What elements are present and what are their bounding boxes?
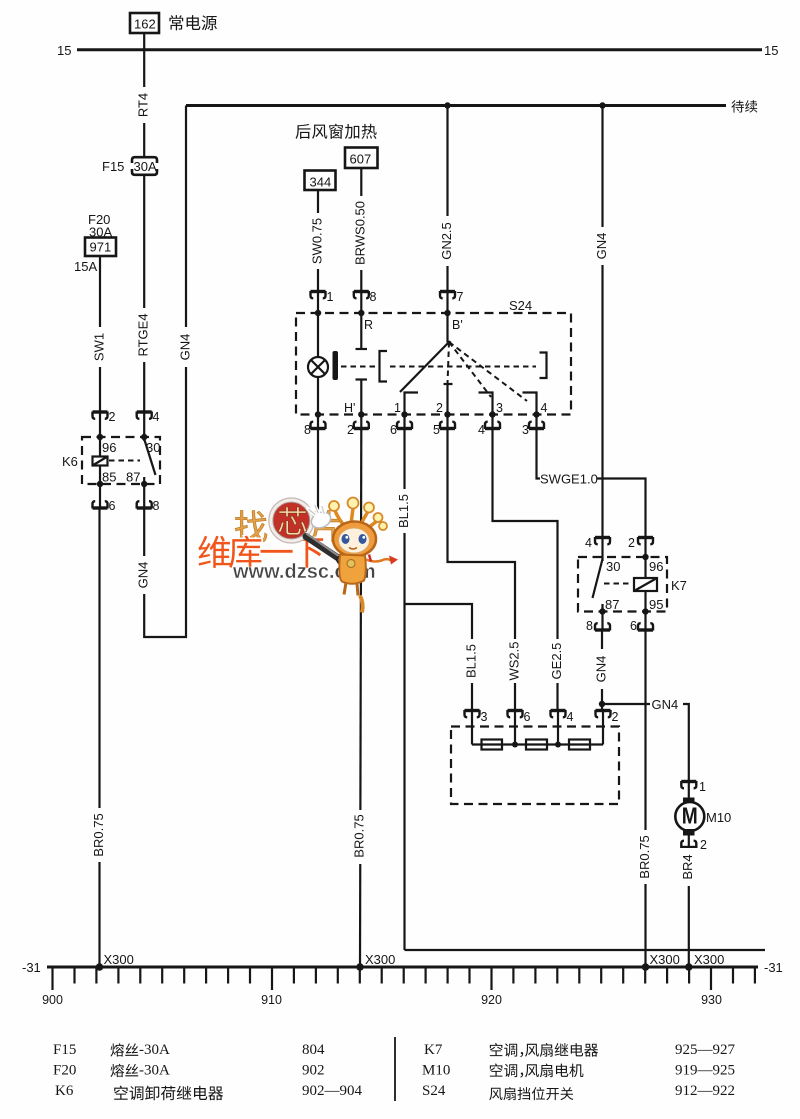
svg-text:8: 8: [304, 423, 311, 437]
svg-text:WS2.5: WS2.5: [506, 641, 521, 680]
K6 coil: [93, 457, 108, 466]
svg-text:-30A: -30A: [139, 1063, 170, 1079]
legend row M10: [422, 1063, 735, 1079]
wm find-chip text: [235, 510, 267, 541]
S24 bottom pin 4: [478, 415, 500, 438]
svg-text:-30A: -30A: [139, 1042, 170, 1058]
svg-text:H': H': [344, 401, 355, 415]
fuse F15 30A: [102, 157, 157, 175]
svg-text:X300: X300: [650, 952, 680, 967]
svg-text:SW1: SW1: [91, 333, 106, 361]
wire GE2.5 (S24 pin4 to resistor pin4): [493, 429, 566, 711]
wire GN4 (K6 pin8 up to bus2): [136, 106, 194, 638]
K6 contact blade: [144, 439, 155, 475]
K6 pin 4: [137, 410, 160, 424]
bus 2 (to be continued): [186, 100, 757, 112]
wire WS2.5 (S24 pin5 to resistor pin6): [448, 429, 524, 711]
svg-text:6: 6: [524, 710, 531, 724]
K7 contact blade: [593, 559, 603, 598]
wire SW0.75 (344 to S24 pin 1): [309, 191, 326, 292]
svg-text:RT4: RT4: [136, 93, 151, 117]
S24 pin 1: [311, 290, 334, 304]
wm magnifier: [269, 498, 314, 543]
S24 bottom pin 5: [433, 415, 455, 438]
svg-text:BR0.75: BR0.75: [91, 813, 106, 856]
S24 contact R/H': [356, 348, 368, 350]
svg-text:910: 910: [261, 993, 282, 1007]
S24 bottom pin 2: [347, 415, 369, 438]
svg-text:4: 4: [478, 423, 485, 437]
wm weiku text: [198, 536, 323, 568]
S24 illumination lamp: [308, 357, 328, 377]
svg-text:902: 902: [302, 1063, 325, 1079]
svg-text:900: 900: [42, 993, 63, 1007]
wire GN4 right (bus2 to K7 pin 4): [594, 106, 611, 538]
M10 pin 1: [681, 780, 706, 794]
svg-text:K6: K6: [55, 1083, 74, 1099]
svg-text:919—925: 919—925: [675, 1063, 735, 1079]
svg-text:S24: S24: [509, 298, 532, 313]
legend row F20: [53, 1063, 325, 1079]
svg-text:1: 1: [394, 401, 401, 415]
svg-text:930: 930: [701, 993, 722, 1007]
S24 position terminal 1: [405, 393, 419, 415]
S24 mech link dashed: [341, 366, 377, 368]
svg-text:2: 2: [700, 838, 707, 852]
svg-text:F20: F20: [53, 1063, 76, 1079]
svg-text:X300: X300: [104, 952, 134, 967]
svg-text:2: 2: [628, 536, 635, 550]
svg-text:8: 8: [586, 619, 593, 633]
svg-text:3: 3: [481, 710, 488, 724]
svg-text:K7: K7: [424, 1042, 443, 1058]
svg-text:GN4: GN4: [593, 656, 608, 683]
S24 pin 7: [440, 290, 464, 304]
legend divider: [394, 1037, 396, 1101]
wire BR0.75 (S24 pin2 to ground bus): [351, 429, 368, 968]
fuse box 971 (F20 30A): [74, 212, 116, 274]
S24 position terminal 4: [523, 393, 537, 415]
svg-text:K6: K6: [62, 454, 78, 469]
resistor R2: [526, 740, 547, 750]
svg-text:8: 8: [153, 499, 160, 513]
svg-text:920: 920: [481, 993, 502, 1007]
svg-text:GN4: GN4: [594, 233, 609, 260]
track numbers: [42, 993, 722, 1007]
svg-text:1: 1: [327, 290, 334, 304]
svg-text:804: 804: [302, 1042, 325, 1058]
legend row K7: [424, 1042, 736, 1058]
svg-text:S24: S24: [422, 1083, 446, 1099]
resistor pack pin 3: [465, 710, 488, 724]
K7 mech link: [604, 583, 632, 585]
K7 pin 2: [628, 536, 653, 550]
wire SWGE1.0 (S24 pin3 to K7 pin2): [537, 429, 646, 538]
svg-text:15: 15: [57, 43, 71, 58]
resistor pack pin 6: [508, 710, 531, 724]
S24 rotary contact B': [400, 342, 449, 392]
svg-text:4: 4: [541, 401, 548, 415]
svg-text:M: M: [682, 803, 698, 829]
svg-text:X300: X300: [365, 952, 395, 967]
connector box 344: [305, 171, 336, 191]
svg-text:BRWS0.50: BRWS0.50: [353, 201, 368, 265]
svg-text:F15: F15: [102, 159, 124, 174]
relay K6: [62, 412, 160, 487]
svg-text:F15: F15: [53, 1042, 76, 1058]
svg-text:-31: -31: [22, 960, 41, 975]
S24 pin 8: [354, 290, 377, 304]
svg-text:95: 95: [649, 597, 663, 612]
svg-text:971: 971: [90, 240, 112, 255]
resistor R1: [482, 740, 503, 750]
wm mascot: [306, 498, 398, 613]
svg-text:BR0.75: BR0.75: [637, 835, 652, 878]
K7 pin 8: [586, 612, 610, 634]
S24 bottom pin 6: [390, 415, 412, 438]
svg-text:K7: K7: [671, 578, 687, 593]
wire BR0.75 (K6 pin6 to ground bus): [91, 508, 107, 967]
S24 position terminal 2: [444, 384, 453, 415]
svg-text:2: 2: [612, 710, 619, 724]
svg-text:3: 3: [522, 423, 529, 437]
wire GN4 (K7 pin8 to resistor pin2 and branch to M10): [593, 630, 688, 782]
node X300 (K6 ground): [96, 952, 134, 971]
svg-text:R: R: [364, 318, 373, 332]
svg-text:BR4: BR4: [680, 854, 695, 879]
svg-text:B': B': [452, 318, 463, 332]
M10 pin 2: [681, 838, 707, 852]
legend row S24: [422, 1083, 735, 1100]
relay K7: [578, 538, 687, 615]
svg-text:7: 7: [457, 290, 464, 304]
wire BR0.75 (K7 pin6 to ground bus): [637, 630, 654, 967]
svg-text:607: 607: [350, 152, 372, 167]
svg-text:87: 87: [126, 470, 140, 485]
S24 bottom pin 3: [522, 415, 544, 438]
bus 15: [57, 43, 778, 58]
svg-text:SWGE1.0: SWGE1.0: [540, 472, 598, 487]
svg-text:RTGE4: RTGE4: [136, 313, 151, 356]
svg-text:6: 6: [630, 619, 637, 633]
resistor pack (blower resistors): [451, 711, 619, 805]
svg-text:2: 2: [109, 410, 116, 424]
wire RT4 (162 to F15): [136, 33, 152, 157]
svg-text:30A: 30A: [134, 159, 157, 174]
svg-text:30: 30: [606, 559, 620, 574]
wire lamp ground (S24 pin8, ends behind watermark): [317, 429, 319, 514]
svg-text:4: 4: [585, 536, 592, 550]
svg-text:6: 6: [390, 423, 397, 437]
svg-text:BR0.75: BR0.75: [351, 814, 366, 857]
svg-text:GN4: GN4: [136, 562, 151, 589]
svg-text:162: 162: [134, 17, 156, 32]
svg-text:M10: M10: [706, 810, 731, 825]
resistor R3: [569, 740, 590, 750]
S24 bottom pin 8: [304, 415, 326, 438]
K6 mech link: [109, 460, 140, 462]
node X300 (K7 ground): [642, 952, 680, 971]
title rear window heating: [296, 124, 377, 139]
connector box 607: [345, 148, 378, 169]
svg-text:6: 6: [109, 499, 116, 513]
svg-text:-31: -31: [764, 960, 783, 975]
wire SW1 (971 to K6 pin 2): [91, 256, 108, 412]
svg-text:X300: X300: [694, 952, 724, 967]
svg-text:8: 8: [370, 290, 377, 304]
node X300 (M10 ground): [685, 952, 724, 971]
K7 pin 4: [585, 536, 610, 550]
svg-text:96: 96: [102, 440, 116, 455]
connector box 162 constant power: [130, 13, 217, 33]
S24 position terminal 3: [479, 393, 493, 415]
wire RTGE4 (F15 to K6 pin 4): [136, 175, 152, 412]
svg-text:15A: 15A: [74, 259, 97, 274]
switch S24 fan switch: [296, 292, 571, 418]
svg-text:M10: M10: [422, 1063, 450, 1079]
svg-text:912—922: 912—922: [675, 1083, 735, 1099]
svg-text:SW0.75: SW0.75: [309, 218, 324, 264]
resistor pack pin 4: [551, 710, 574, 724]
svg-text:GE2.5: GE2.5: [549, 643, 564, 680]
watermark: [198, 498, 398, 613]
svg-text:5: 5: [433, 423, 440, 437]
svg-text:344: 344: [310, 175, 332, 190]
svg-text:15: 15: [764, 43, 778, 58]
svg-text:87: 87: [605, 597, 619, 612]
svg-text:4: 4: [567, 710, 574, 724]
legend row F15: [53, 1042, 325, 1058]
legend row K6: [55, 1083, 363, 1100]
svg-text:GN2.5: GN2.5: [439, 222, 454, 260]
resistor pack pin 2: [596, 710, 619, 724]
wire BR4 (M10 to ground bus): [680, 848, 697, 968]
svg-text:GN4: GN4: [177, 334, 192, 361]
svg-text:GN4: GN4: [652, 697, 679, 712]
wire BL1.5 (S24 pin6, to resistor pin3 and bottom continuation): [396, 429, 765, 951]
svg-text:3: 3: [496, 401, 503, 415]
node X300 (S24 ground): [356, 952, 395, 971]
ground bus -31: [22, 960, 783, 975]
svg-text:4: 4: [153, 410, 160, 424]
svg-text:2: 2: [436, 401, 443, 415]
K7 pin 6: [630, 612, 653, 634]
K7 coil: [634, 578, 657, 591]
svg-text:BL1.5: BL1.5: [463, 644, 478, 678]
K6 pin 6: [93, 484, 116, 513]
svg-text:902—904: 902—904: [302, 1083, 363, 1099]
svg-text:925—927: 925—927: [675, 1042, 736, 1058]
svg-text:2: 2: [347, 423, 354, 437]
K6 pin 8: [137, 484, 160, 513]
wire GN2.5 (bus2 to S24 pin 7): [439, 106, 456, 292]
svg-text:BL1.5: BL1.5: [396, 494, 411, 528]
track ruler: [53, 967, 755, 990]
motor M10: [675, 782, 731, 848]
K6 pin 2: [93, 410, 116, 424]
svg-text:85: 85: [102, 470, 116, 485]
wire BRWS0.50 (607 to S24 pin 8): [353, 168, 369, 292]
svg-text:96: 96: [649, 559, 663, 574]
svg-text:1: 1: [699, 780, 706, 794]
